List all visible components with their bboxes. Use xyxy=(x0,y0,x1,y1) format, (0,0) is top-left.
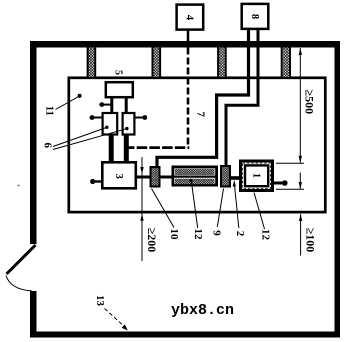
terminal A on pipe xyxy=(99,102,111,107)
label 2 leader arrow xyxy=(233,180,247,237)
filter box 6 left xyxy=(103,113,118,135)
svg-text:12: 12 xyxy=(260,229,272,241)
svg-text:13: 13 xyxy=(94,295,106,307)
svg-text:≥100: ≥100 xyxy=(304,228,318,253)
svg-text:4: 4 xyxy=(183,15,194,21)
wall sleeve 4 xyxy=(282,48,290,78)
pipe joint to muffler xyxy=(161,176,173,179)
label 9 leader xyxy=(211,189,224,237)
terminal right of box 1 xyxy=(274,180,288,186)
terminal left of box 3 xyxy=(90,179,101,184)
label 10 leader xyxy=(152,189,180,241)
wall sleeve 1 xyxy=(88,48,96,78)
pipe 6 to 3 right xyxy=(124,134,129,162)
label 11 leader xyxy=(43,94,81,116)
stray speck xyxy=(18,185,20,187)
wall sleeve 3 xyxy=(218,48,226,78)
svg-text:≥200: ≥200 xyxy=(145,228,159,253)
svg-text:ybx8.cn: ybx8.cn xyxy=(171,302,234,319)
wall sleeve 2 xyxy=(153,48,161,78)
dimension gap arrows xyxy=(299,173,302,190)
pipe 5 to 6 right xyxy=(125,97,128,114)
fuel tank box 4 xyxy=(177,5,204,30)
svg-text:1: 1 xyxy=(250,173,261,178)
dashed fuel line vertical xyxy=(187,48,190,147)
terminal B left of box 6 xyxy=(90,115,102,120)
pipe 2 joint to box 1 xyxy=(231,176,241,180)
extension line lower xyxy=(276,188,304,190)
muffler 10 xyxy=(172,167,219,185)
stub pipe from box 4 xyxy=(187,30,190,42)
flexible joint left xyxy=(151,167,160,187)
filter box 6 right xyxy=(123,113,135,135)
label 6 leaders xyxy=(41,126,128,150)
dashed fuel line horizontal xyxy=(124,146,189,149)
outer wall top xyxy=(30,41,340,48)
exhaust pipe B from 8 xyxy=(226,29,258,166)
exhaust pipe A from 8 xyxy=(157,29,249,167)
pipe 5 to 6 left xyxy=(110,97,113,114)
svg-text:12: 12 xyxy=(192,229,204,241)
svg-text:5: 5 xyxy=(113,70,124,75)
svg-text:9: 9 xyxy=(211,230,223,236)
outer wall left upper xyxy=(30,41,37,244)
terminal C right of box 6 xyxy=(136,115,148,120)
dimension &#8805;200 xyxy=(140,157,159,261)
generator box 3 xyxy=(102,162,136,188)
svg-text:8: 8 xyxy=(249,14,260,19)
label 12 muffler leader xyxy=(189,179,204,240)
door swing arc xyxy=(6,276,32,291)
svg-text:11: 11 xyxy=(43,106,55,116)
pipe 6 to 3 left xyxy=(109,134,114,162)
extension line upper xyxy=(276,162,304,164)
label 13 leader xyxy=(94,295,128,331)
box 1 outer xyxy=(241,161,273,191)
outer wall left lower xyxy=(30,291,37,338)
svg-text:10: 10 xyxy=(168,229,180,241)
door leaf xyxy=(7,245,36,274)
dimension &#8805;500 xyxy=(299,48,317,163)
label 12 right leader xyxy=(254,193,272,241)
svg-text:6: 6 xyxy=(41,143,53,149)
control box 5 xyxy=(106,82,133,97)
pipe 3 to left joint xyxy=(137,176,151,179)
svg-text:7: 7 xyxy=(195,112,206,117)
tank 8 box xyxy=(242,4,269,29)
svg-text:≥500: ≥500 xyxy=(303,90,317,115)
outer wall bottom xyxy=(30,332,340,338)
machine room wall 11 xyxy=(69,78,326,212)
dimension &#8805;100 xyxy=(299,214,318,256)
svg-text:2: 2 xyxy=(234,231,246,237)
flexible joint right xyxy=(221,166,230,187)
svg-text:3: 3 xyxy=(113,174,124,179)
outer wall right xyxy=(335,41,341,338)
